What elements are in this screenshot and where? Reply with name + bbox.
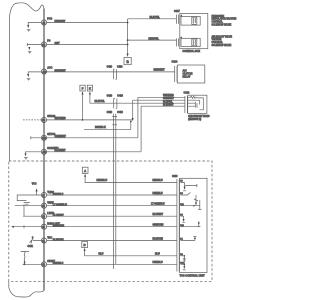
svg-text:C610: C610 bbox=[172, 175, 178, 178]
wire PNK/BLU row from C7 bbox=[47, 194, 177, 196]
wire RED/WHT from C3 to relay bbox=[47, 71, 175, 73]
arrow into A bbox=[84, 174, 86, 177]
node circle C5 bbox=[41, 135, 46, 140]
svg-text:BLK/ORN: BLK/ORN bbox=[153, 237, 164, 240]
wire RED/BLU row bbox=[85, 176, 177, 182]
control box outline bbox=[180, 13, 208, 48]
svg-text:SOLENOID VALVE: SOLENOID VALVE bbox=[212, 44, 232, 47]
wire BLK/YEL from AS to sensor bbox=[90, 94, 185, 103]
arrow into connector B bbox=[127, 54, 129, 58]
svg-text:(SENSOR 2): (SENSOR 2) bbox=[188, 118, 201, 121]
connector A box bbox=[82, 167, 88, 173]
ground symbol at C6 bbox=[26, 152, 42, 154]
node circle C9 bbox=[41, 214, 46, 219]
ECM internal pullup C7 bbox=[36, 189, 38, 195]
in-line connector C416 on RED/WHT bbox=[113, 69, 116, 79]
wire WHT/RED sensor row1 bbox=[138, 97, 185, 137]
arrow into AS bbox=[89, 91, 91, 94]
node circle C10 bbox=[41, 224, 46, 229]
svg-text:C6: C6 bbox=[42, 264, 46, 267]
ECM internal path C10 bbox=[12, 225, 41, 228]
ECM internal path C9 bbox=[23, 207, 41, 216]
svg-text:BLK/ORN: BLK/ORN bbox=[53, 238, 64, 241]
in-line connector C416 on pair bbox=[112, 117, 117, 125]
wire BRN/BLK stub bbox=[84, 122, 131, 130]
arrow into D bbox=[84, 248, 86, 251]
svg-text:PCS: PCS bbox=[47, 18, 52, 21]
svg-text:C1: C1 bbox=[42, 240, 46, 243]
wire from F down to WHT/RED row bbox=[82, 94, 84, 120]
wire GRY from C2 bbox=[47, 44, 128, 46]
svg-text:PNK/BLU: PNK/BLU bbox=[153, 261, 163, 264]
svg-text:RED/WHT: RED/WHT bbox=[154, 69, 166, 72]
connector B box bbox=[124, 58, 131, 65]
connector D box bbox=[82, 241, 88, 247]
svg-text:BLU: BLU bbox=[155, 253, 160, 256]
svg-text:B: B bbox=[126, 60, 129, 64]
svg-text:C410: C410 bbox=[117, 111, 123, 114]
wire C5 left stub bbox=[31, 136, 42, 139]
TCS interior row3 circuit bbox=[181, 200, 202, 210]
node circle C7 bbox=[41, 192, 46, 197]
wire GRN/WHT from C5 bbox=[47, 137, 138, 139]
svg-text:D: D bbox=[84, 243, 87, 247]
node circle C3 bbox=[41, 69, 46, 74]
dashed box ECM/PCM left stub bbox=[8, 281, 10, 287]
svg-text:C418: C418 bbox=[117, 95, 123, 98]
svg-text:A: A bbox=[84, 169, 87, 173]
wire BLK/YEL row1 to control box bbox=[128, 18, 177, 20]
ECM internal path C12 bbox=[23, 263, 41, 265]
svg-text:PS: PS bbox=[47, 40, 51, 43]
svg-text:LT GRN/BLU: LT GRN/BLU bbox=[53, 204, 67, 207]
wire top continuation squiggle bbox=[9, 3, 44, 18]
sensor heater zigzag bbox=[188, 96, 203, 110]
svg-text:VCC: VCC bbox=[32, 184, 37, 186]
svg-text:SOLENOID VALVE: SOLENOID VALVE bbox=[212, 23, 232, 26]
svg-text:TCS CONTROL UNIT: TCS CONTROL UNIT bbox=[180, 274, 206, 278]
TCS interior row5 circuit bbox=[181, 222, 199, 227]
svg-text:BLU: BLU bbox=[99, 253, 104, 256]
svg-text:BRN/BLK: BRN/BLK bbox=[95, 126, 106, 129]
svg-text:RED/BLU: RED/BLU bbox=[97, 179, 108, 182]
wire PNK/BLU row from C12 bbox=[47, 263, 177, 265]
wire BLU row bbox=[85, 251, 177, 256]
junction dot at RED/GRY bbox=[127, 22, 129, 24]
svg-text:LT GRN/BLU: LT GRN/BLU bbox=[151, 203, 165, 206]
TCS interior row8 circuit bbox=[181, 264, 186, 270]
TCS interior row7 circuit bbox=[181, 256, 186, 264]
junction dot at GRY bbox=[127, 44, 129, 46]
svg-text:TDC: TDC bbox=[47, 236, 52, 239]
junction dot at RED/YEL bbox=[127, 39, 129, 41]
wire GRN/ORN row from C10 bbox=[47, 226, 177, 228]
svg-text:BLK/YEL: BLK/YEL bbox=[95, 100, 106, 103]
TCS interior row2 circuit bbox=[181, 192, 199, 204]
wire bottom continuation squiggle bbox=[9, 287, 44, 297]
solenoid valve 1 bbox=[181, 16, 200, 25]
TCS control unit box bbox=[180, 178, 208, 272]
svg-text:BLU/WHT: BLU/WHT bbox=[53, 214, 65, 217]
svg-text:PNK/BLU: PNK/BLU bbox=[53, 193, 64, 196]
wire vertical feed to connector B bbox=[127, 19, 129, 54]
wire BLK/ORN row from C11 bbox=[47, 240, 177, 242]
svg-text:PNK/BLU: PNK/BLU bbox=[153, 192, 163, 195]
arrow into F bbox=[82, 91, 84, 94]
node circle C8 bbox=[41, 203, 46, 208]
svg-text:BLK/WHT: BLK/WHT bbox=[163, 103, 174, 106]
TCS interior row6 circuit bbox=[181, 236, 197, 240]
ground symbol at C2 bbox=[27, 43, 41, 46]
svg-text:C3: C3 bbox=[42, 226, 46, 229]
wire C4 left dashed stub bbox=[22, 119, 41, 121]
relay connector bars bbox=[175, 66, 177, 82]
svg-text:C612: C612 bbox=[184, 92, 190, 95]
svg-text:GRN/ORN: GRN/ORN bbox=[153, 224, 164, 227]
svg-text:GRN/ORN: GRN/ORN bbox=[53, 225, 65, 228]
terminal arrow GRN/WHT bbox=[132, 118, 134, 121]
svg-text:C418: C418 bbox=[117, 66, 123, 69]
ECM internal path C8 bbox=[15, 204, 42, 207]
sensor connector bars bbox=[185, 96, 188, 113]
TCS interior row4 circuit bbox=[181, 216, 186, 222]
A/C clutch relay box bbox=[177, 65, 205, 83]
dashed box ECM/PCM bbox=[9, 161, 212, 281]
solenoid valve 2 bbox=[181, 38, 200, 46]
in-line connector C416 on BLK/YEL bbox=[114, 99, 117, 109]
wire BLK/WHT sensor row4 bbox=[141, 106, 185, 151]
connector F box bbox=[80, 85, 85, 91]
svg-text:C416: C416 bbox=[107, 66, 113, 69]
svg-text:BLU/WHT: BLU/WHT bbox=[153, 213, 164, 216]
node circle C6 bbox=[41, 149, 46, 154]
svg-text:C7: C7 bbox=[42, 194, 46, 197]
node circle C1 bbox=[41, 20, 46, 25]
connector AS box bbox=[87, 85, 92, 91]
node circle C11 bbox=[41, 238, 46, 243]
ground symbol at C1 bbox=[28, 23, 41, 26]
control box connector bars bbox=[176, 15, 178, 47]
TCS unit connector bars bbox=[177, 179, 179, 272]
node circle C2 bbox=[41, 42, 46, 47]
node circle C4 bbox=[41, 117, 46, 122]
wire left harness vertical bbox=[8, 18, 10, 162]
wire BLK/WHT from C6 bbox=[47, 151, 142, 153]
secondary HO2S box bbox=[188, 95, 207, 113]
wire WHT/RED from C4 bbox=[47, 119, 133, 121]
ECM internal path C7 bbox=[17, 195, 41, 201]
wire main bus vertical bbox=[43, 9, 45, 291]
wire RED/YEL row2 to control box bbox=[128, 39, 177, 41]
svg-text:C617: C617 bbox=[174, 10, 180, 13]
wire BLU/WHT row from C9 bbox=[47, 215, 177, 217]
node circle C12 bbox=[41, 262, 46, 267]
svg-text:C9: C9 bbox=[42, 216, 46, 219]
svg-text:G401: G401 bbox=[28, 245, 34, 248]
ground symbol at C3 bbox=[28, 72, 41, 74]
svg-text:F: F bbox=[82, 87, 84, 91]
junction dot BRN/BLK bbox=[130, 121, 132, 123]
wire RED/GRY from C1 bbox=[47, 22, 128, 24]
ECM internal sensor C11 bbox=[30, 237, 42, 244]
wire GRN/WHT sensor row2 bbox=[133, 100, 185, 119]
svg-text:RED/BLU: RED/BLU bbox=[153, 179, 163, 182]
svg-text:CONTROL BOX: CONTROL BOX bbox=[182, 50, 200, 53]
junction dot F bbox=[82, 119, 84, 121]
wire vertical pair left bbox=[113, 114, 115, 269]
svg-text:K: K bbox=[89, 87, 92, 91]
wire LT GRN/BLU row from C8 bbox=[47, 205, 177, 207]
TCS interior row1 circuit bbox=[181, 183, 187, 191]
svg-text:C416: C416 bbox=[107, 111, 113, 114]
svg-text:RELAY: RELAY bbox=[183, 76, 191, 79]
svg-text:BLK/YEL: BLK/YEL bbox=[150, 16, 161, 19]
svg-text:C5: C5 bbox=[42, 205, 46, 208]
wire vertical pair right bbox=[115, 114, 117, 264]
svg-text:C416: C416 bbox=[107, 95, 113, 98]
svg-text:C614: C614 bbox=[172, 61, 178, 64]
svg-text:ACC: ACC bbox=[47, 67, 52, 70]
